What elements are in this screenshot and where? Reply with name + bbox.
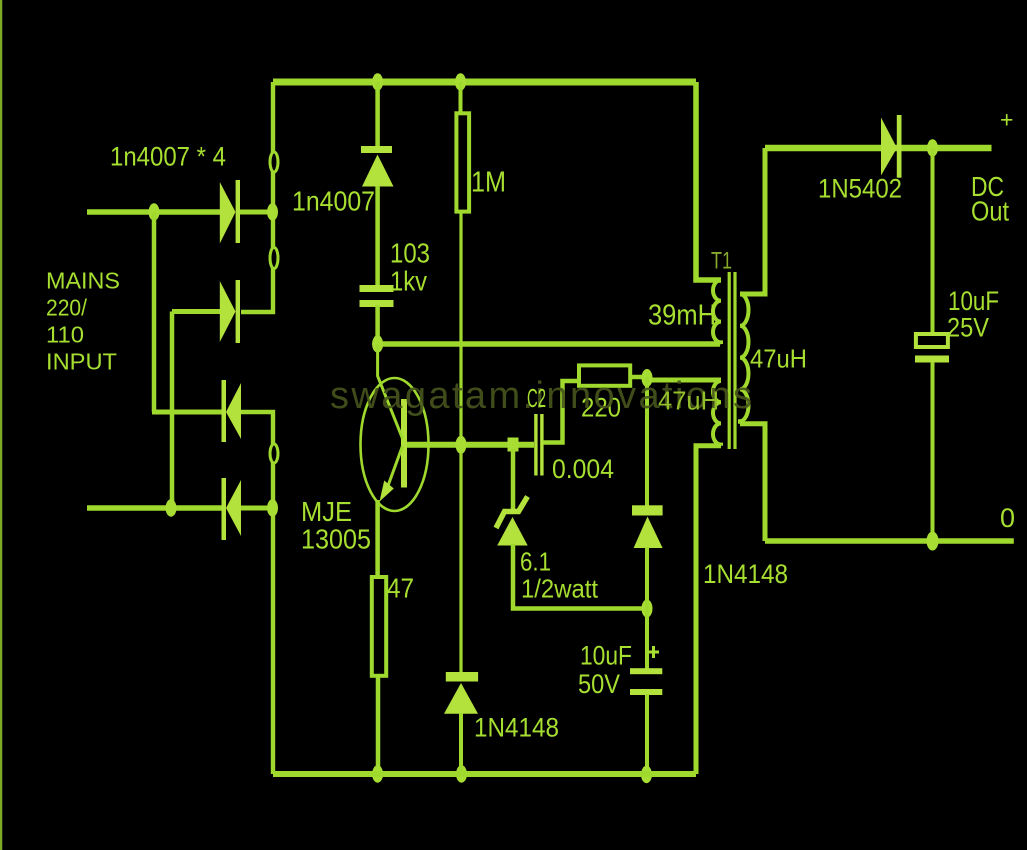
wire: bottom rail — [273, 771, 696, 777]
node: junction left 1N4148 / bottom rail — [456, 765, 467, 782]
node: junction 220 / 1N4148 branch — [642, 369, 653, 387]
svg-text:C2: C2 — [527, 383, 546, 413]
node: junction output + / cap branch — [927, 139, 938, 156]
diode D1 (1n4007 bridge, points right) — [220, 180, 240, 244]
wire: snubber diode to cap 103 — [375, 186, 380, 286]
diode D4 (1n4007 bridge, points left) — [222, 478, 242, 540]
svg-text:50V: 50V — [578, 669, 620, 699]
wire: 220 resistor right to junction — [630, 375, 648, 380]
svg-text:47uH: 47uH — [750, 344, 807, 374]
svg-text:10uF: 10uF — [948, 286, 999, 316]
wire: 47 resistor to bottom rail — [376, 675, 381, 774]
svg-text:T1: T1 — [711, 248, 732, 275]
diode 1N4148 right (points up) — [632, 505, 663, 548]
resistor 220 — [579, 365, 630, 385]
node: junction snubber / collector rail — [372, 335, 383, 352]
wire: AC1 vertical bus x=154 — [152, 212, 157, 412]
svg-text:6.1: 6.1 — [520, 547, 551, 577]
wire: D2 anode input — [172, 309, 220, 314]
capacitor 103 1kv — [360, 285, 394, 307]
svg-text:47uH: 47uH — [658, 386, 719, 416]
wire: output cap branch down — [931, 148, 935, 336]
wire: right 1N4148 to cap 10uF 50V — [645, 547, 649, 669]
diode 1N5402 (points right) — [881, 115, 902, 178]
diode D3 (1n4007 bridge, points left) — [222, 380, 242, 442]
svg-text:220/: 220/ — [46, 295, 88, 321]
node: junction D4 output on left bus — [267, 499, 278, 516]
svg-text:INPUT: INPUT — [46, 349, 117, 375]
transistor Q1 emitter lead — [385, 446, 403, 494]
wire: left bus upper segment (bridge + output to top rail) — [241, 82, 273, 312]
svg-text:1kv: 1kv — [390, 266, 427, 297]
wire hop on left bus (lower) — [270, 444, 278, 463]
wire: AC2 vertical bus x=172 — [170, 312, 175, 509]
svg-text:1M: 1M — [471, 167, 506, 199]
svg-text:1N5402: 1N5402 — [818, 174, 902, 204]
diode 1N4148 left (points up) — [444, 672, 478, 714]
node: junction top rail / snubber branch — [372, 73, 383, 90]
svg-text:MJE: MJE — [301, 496, 352, 527]
wire hop on left bus (upper) — [270, 152, 278, 172]
wire: diode D1 output to left bus — [240, 210, 273, 215]
resistor 1M — [456, 113, 469, 211]
svg-text:10uF: 10uF — [580, 641, 632, 671]
node: junction mains bottom / AC2 bus — [166, 499, 177, 516]
wire: D4 anode to left bus — [241, 506, 273, 511]
transformer T1 secondary winding 47uH — [740, 294, 749, 424]
wire: left 1N4148 to bottom rail — [459, 713, 463, 774]
node: junction base rail / zener branch (square) — [508, 438, 519, 452]
node: junction cap branch / bottom rail — [641, 766, 652, 783]
svg-text:+: + — [1000, 107, 1013, 133]
wire: emitter down to 47 resistor — [375, 500, 380, 578]
wire: output + rail — [765, 145, 992, 152]
svg-text:0.004: 0.004 — [552, 454, 614, 484]
node: junction mains top / AC1 bus — [149, 203, 160, 220]
resistor 47 — [372, 577, 386, 676]
diode D2 (1n4007 bridge, points right) — [220, 280, 240, 343]
svg-text:110: 110 — [46, 322, 84, 348]
diode 1n4007 snubber (points up) — [361, 146, 394, 187]
transistor Q1 collector lead — [378, 344, 403, 439]
svg-text:47: 47 — [387, 573, 414, 604]
svg-text:0: 0 — [1000, 503, 1015, 533]
svg-text:1/2watt: 1/2watt — [521, 574, 599, 604]
wire: junction to transformer primary bottom winding — [645, 378, 721, 383]
node: junction 47 resistor / bottom rail — [372, 765, 383, 782]
wire: snubber branch down from top rail — [375, 82, 380, 147]
wire: cap 10uF 25V down to 0 rail — [931, 362, 935, 541]
wire: cap 103 to collector node — [375, 305, 380, 344]
wire: mains top input to D1 anode — [87, 209, 220, 215]
wire: from 220 junction down to right 1N4148 — [645, 377, 649, 506]
transformer T1 primary top winding 39mH — [713, 280, 721, 344]
wire: zener branch down from base rail — [511, 449, 516, 509]
wire: zener to bottom link — [513, 544, 648, 609]
wire hop on left bus (second) — [270, 248, 278, 269]
wire: 1M branch from top rail — [459, 82, 463, 114]
transistor Q1 MJE13005 ellipse — [361, 378, 429, 511]
svg-text:39mH: 39mH — [648, 300, 716, 332]
capacitor C2 0.004 — [534, 414, 543, 476]
zener diode 6.1V triangle (points up) — [497, 517, 528, 546]
wire: top rail from left bus to transformer primary top — [273, 79, 696, 86]
wire: cap 0.004 right to riser up to 220 resistor — [543, 381, 579, 443]
node: junction output 0 / cap branch — [927, 532, 939, 551]
wire: output 0 rail — [765, 538, 1014, 544]
wire: secondary bottom leg to output 0 rail — [740, 424, 765, 541]
capacitor 10uF 50V — [630, 668, 662, 695]
wire: AC1 to D3 cathode — [152, 410, 222, 415]
svg-text:1N4148: 1N4148 — [474, 713, 559, 743]
svg-text:1n4007: 1n4007 — [292, 186, 375, 217]
wire: collector rail y=344 to transformer primary top winding — [378, 341, 720, 347]
wire: cap 10uF 50V to bottom rail — [645, 694, 649, 774]
wire: secondary top leg to output + rail — [740, 148, 765, 294]
wire: D3 anode to left bus lower — [241, 412, 273, 774]
transistor Q1 base bar — [401, 399, 407, 488]
transistor Q1 emitter arrow — [380, 481, 394, 502]
left image border line — [0, 0, 2, 850]
transformer T1 primary bottom winding 47uH — [713, 381, 721, 446]
svg-text:25V: 25V — [947, 313, 989, 343]
wire: 1M down to base rail and to left 1N4148 — [459, 212, 462, 673]
svg-text:1N4148: 1N4148 — [703, 559, 788, 589]
svg-text:MAINS: MAINS — [46, 268, 120, 294]
svg-text:Out: Out — [971, 196, 1009, 227]
node: junction D1 output on left bus — [267, 203, 278, 220]
wire: transformer primary top leg — [696, 82, 721, 280]
node: junction top rail / 1M branch — [455, 73, 466, 90]
svg-text:103: 103 — [390, 238, 430, 269]
capacitor 10uF 50V plus sign — [648, 646, 659, 658]
wire: base rail from base bar to cap 0.004 — [407, 442, 534, 448]
svg-text:13005: 13005 — [301, 524, 371, 555]
zener diode 6.1V bar — [496, 497, 528, 529]
svg-text:1n4007 * 4: 1n4007 * 4 — [110, 142, 226, 172]
capacitor 10uF 25V — [915, 334, 949, 363]
node: junction zener link / cap branch — [642, 600, 653, 618]
wire: transformer primary right side down leg — [696, 446, 721, 774]
wire: mains bottom input to D4 cathode — [87, 505, 222, 511]
transformer T1 core — [729, 272, 735, 449]
node: junction base rail / 1M-1N4148 branch — [456, 436, 467, 454]
